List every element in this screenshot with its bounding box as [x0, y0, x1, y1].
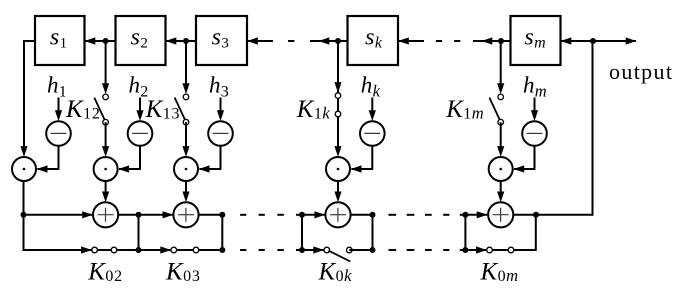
tie wire t6 [464, 215, 466, 250]
dash top gap2a [436, 40, 442, 42]
dash bus g2e [460, 249, 464, 251]
arrow h1 into source [58, 98, 60, 112]
node n1 (M1 output) [21, 212, 27, 218]
dash bus g1b [259, 249, 265, 251]
dash bus g2d [443, 249, 449, 251]
output arrow [626, 37, 637, 44]
delay block s3 [196, 16, 247, 65]
wire hk to multiplier [371, 146, 373, 168]
source circle hm (minus) [522, 121, 547, 146]
dash top gap1 [288, 40, 294, 42]
wire A4 to output riser [513, 214, 592, 216]
node j3 [183, 38, 189, 44]
delay block s2 [116, 16, 166, 65]
wire node j3 to s2 [166, 37, 177, 44]
bus node b5 [370, 247, 376, 253]
arrow into multiplier hk right [351, 165, 362, 172]
switch K1m top contact [498, 94, 504, 100]
switch K1m bottom contact [498, 119, 504, 125]
wire down through switch K1k [337, 41, 339, 147]
arrow hk into source [371, 98, 373, 112]
source circle h3 (minus) [208, 121, 233, 146]
switch K13 top contact [183, 94, 189, 100]
multiplier M1 [12, 157, 36, 181]
bus wire after K0k [349, 249, 372, 251]
switch K0k right contact [347, 247, 353, 253]
dash adder row g1c [277, 214, 283, 216]
dash bus g1a [240, 249, 246, 251]
arrow into adder below Mk [334, 192, 341, 203]
node j2 [103, 38, 109, 44]
node n5 [370, 212, 376, 218]
bus node b3 [219, 247, 225, 253]
node n6 [462, 212, 468, 218]
bus node b6 [462, 247, 468, 253]
wire sm to output [561, 37, 572, 44]
switch K13 blade [175, 98, 186, 122]
bus wire to K03 [139, 249, 171, 251]
switch K03 (closed) [171, 249, 222, 251]
multiplier Mk [326, 157, 350, 181]
wire hm to multiplier [534, 146, 536, 168]
wire into s3 (broken) [247, 37, 258, 44]
adder A3 [325, 202, 350, 227]
node n3 [219, 212, 225, 218]
dash adder row g1d [296, 214, 299, 216]
wire down to switch K13 [185, 41, 187, 85]
wire M2 to adder [105, 181, 107, 193]
arrow into adder below M2 [102, 192, 109, 203]
dash bus g1c [277, 249, 283, 251]
adder A2 [173, 202, 198, 227]
arrow into multiplier M1 [20, 146, 27, 157]
arrow into switch K12 [102, 83, 109, 94]
arrow into switch K1m [497, 83, 504, 94]
tie wire t4 [301, 215, 303, 250]
wire switch K1m to multiplier [500, 122, 502, 147]
bus wire start [24, 249, 92, 251]
dash bus g1d [296, 249, 299, 251]
multiplier M3 [174, 157, 198, 181]
delay block s1 [35, 16, 85, 65]
node jm [498, 38, 504, 44]
wire switch K12 to multiplier [105, 122, 107, 147]
dash bus g2a [389, 249, 397, 251]
wire A2 out [199, 214, 223, 216]
wire into sk (broken) [398, 37, 409, 44]
dash adder row g1a [240, 214, 246, 216]
switch K13 bottom contact [183, 119, 189, 125]
arrow into multiplier h2 right [118, 165, 129, 172]
node n4 [299, 212, 305, 218]
delay block sk [348, 16, 399, 65]
arrow into switch K13 [182, 83, 189, 94]
dash adder row g2d [443, 214, 449, 216]
tie wire t2 [138, 215, 140, 250]
wire into adder A4 [465, 214, 487, 216]
switch K1k bottom contact [335, 111, 341, 117]
dash adder row g2c [425, 214, 432, 216]
wire h2 to multiplier [139, 146, 141, 168]
source circle h1 (minus) [46, 121, 71, 146]
bus wire to K0k [302, 249, 324, 251]
node n7 [533, 212, 539, 218]
bus node b4 [299, 247, 305, 253]
switch K12 blade [94, 98, 105, 122]
wire h1 to multiplier [58, 146, 60, 168]
dash bus g2c [425, 249, 432, 251]
delay block sm [511, 16, 561, 65]
node n2 [136, 212, 142, 218]
node jout [590, 38, 596, 44]
wire A1 to A2 [118, 214, 173, 216]
svg-text:output: output [609, 59, 673, 84]
node jk [335, 38, 341, 44]
wire down to switch K12 [105, 41, 107, 85]
adder A1 [93, 202, 118, 227]
dash bus g2b [407, 249, 415, 251]
wire switch K13 to multiplier [185, 122, 187, 147]
dash adder row g2e [460, 214, 464, 216]
dash adder row g2a [389, 214, 397, 216]
arrow h3 into source [220, 98, 222, 112]
wire node jm segment [473, 40, 511, 42]
switch K02 (closed) [92, 249, 139, 251]
wire M1 to node n1 [23, 181, 25, 215]
tie wire t1 [23, 215, 25, 251]
wire Mm to adder [500, 181, 502, 193]
arrow hm into source [534, 98, 536, 112]
multiplier Mm [489, 157, 513, 181]
tie wire t3 [221, 215, 223, 250]
adder A4 [488, 202, 513, 227]
wire into adder A3 [302, 214, 325, 216]
switch K1k top contact [335, 93, 341, 99]
switch K0k blade [329, 251, 351, 262]
dash adder row g2b [407, 214, 415, 216]
switch K12 bottom contact [103, 119, 109, 125]
wire s1 output to left column [24, 40, 36, 42]
switch K12 top contact [103, 94, 109, 100]
arrow into switch K1k [334, 82, 341, 93]
arrow into multiplier h3 right [199, 165, 210, 172]
arrow into multiplier below K12 [102, 146, 109, 157]
tie wire t7 [535, 215, 537, 251]
switch K1m blade [489, 98, 500, 122]
dash top gap2b [454, 40, 460, 42]
bus wire to K0m [465, 249, 486, 251]
multiplier M2 [94, 157, 118, 181]
arrow into multiplier below K1m [497, 146, 504, 157]
arrow h2 into source [139, 98, 141, 112]
arrow into multiplier h1 right [37, 165, 48, 172]
arrow into multiplier below K13 [182, 146, 189, 157]
switch K0k (open) left contact [324, 247, 330, 253]
wire node jk segment [310, 40, 348, 42]
switch K0m (closed) [487, 249, 536, 251]
wire node j2 to s1 [85, 37, 96, 44]
wire Mk to adder [337, 181, 339, 193]
arrow into adder below M3 [182, 192, 189, 203]
wire A3 out [351, 214, 373, 216]
wire n1 to adder A1 [24, 214, 93, 216]
source circle hk (minus) [360, 121, 385, 146]
arrow into adder below Mm [497, 192, 504, 203]
source circle h2 (minus) [128, 121, 153, 146]
dash adder row g1b [259, 214, 265, 216]
bus node b2 [136, 247, 142, 253]
tie wire t5 [372, 215, 374, 250]
arrow into multiplier below K1k [334, 146, 341, 157]
wire h3 to multiplier [220, 146, 222, 168]
output riser wire [592, 41, 594, 216]
wire down to switch K1m [500, 41, 502, 85]
wire M3 to adder [185, 181, 187, 193]
arrow into multiplier hm right [513, 165, 524, 172]
